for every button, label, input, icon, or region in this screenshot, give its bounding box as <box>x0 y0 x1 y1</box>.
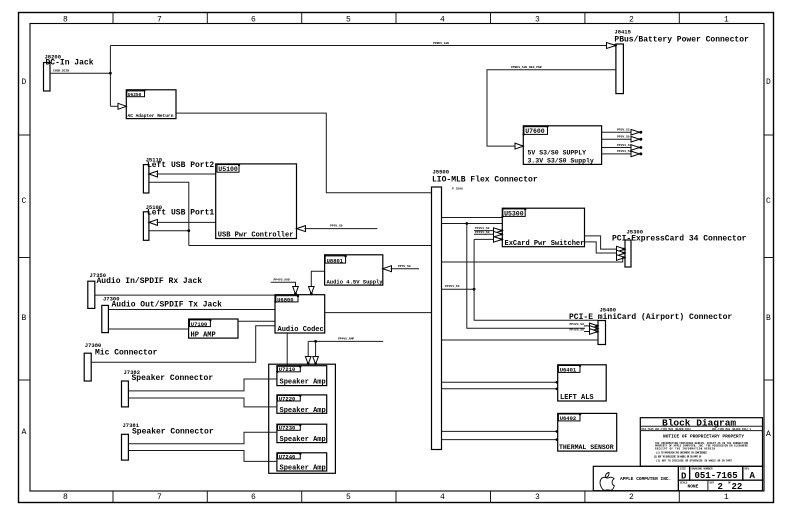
svg-text:051-7165_MLB (BLOCK DIA) 1: 051-7165_MLB (BLOCK DIA) 1 <box>712 428 752 431</box>
svg-text:Speaker Amp: Speaker Amp <box>280 379 326 387</box>
svg-text:Audio 4.5V Supply: Audio 4.5V Supply <box>327 279 384 286</box>
wire vertical DCIN riser <box>109 46 111 107</box>
arrow into J8415 <box>607 43 616 49</box>
wire riser to ExCard arrow3 <box>474 238 493 240</box>
wire U7600 output PP5V_S3 <box>602 131 632 133</box>
svg-text:5V S3/S0 SUPPLY: 5V S3/S0 SUPPLY <box>528 150 587 157</box>
svg-text:P J500: P J500 <box>452 188 463 191</box>
arrow into AC Adapter Return <box>118 103 126 109</box>
connector J8415 PBus/Battery Power Connector <box>614 29 749 94</box>
svg-text:USB Pwr Controller: USB Pwr Controller <box>218 232 294 240</box>
svg-text:(3) NOT TO DISCLOSE OR OTHERWI: (3) NOT TO DISCLOSE OR OTHERWISE IN WHOL… <box>656 460 732 463</box>
wire J5500 PP3V3 to risers <box>442 288 475 290</box>
svg-text:Speaker Amp: Speaker Amp <box>280 436 326 444</box>
svg-text:PP1V5_S0: PP1V5_S0 <box>475 231 490 234</box>
connector J5500 LIO-MLB Flex Connector <box>432 169 538 450</box>
wire J7300 to HP AMP <box>108 328 188 330</box>
junction dot ExCard feed <box>465 222 468 225</box>
svg-text:DC-In Jack: DC-In Jack <box>46 59 94 68</box>
connector J7381 Speaker Connector <box>122 422 214 460</box>
svg-text:B: B <box>22 314 27 323</box>
svg-text:6: 6 <box>251 16 256 25</box>
arrow down into codec pin1 <box>293 287 299 295</box>
svg-text:22: 22 <box>732 482 743 492</box>
svg-text:PP3V3_S3: PP3V3_S3 <box>617 144 632 147</box>
svg-text:PP4V5_AUD: PP4V5_AUD <box>274 278 290 281</box>
wire stub miniCard in1 <box>584 325 590 327</box>
svg-text:051-7165_051-7165_MLB (BLOCK D: 051-7165_051-7165_MLB (BLOCK DIA) <box>642 428 692 431</box>
svg-text:LEFT ALS: LEFT ALS <box>560 394 594 402</box>
svg-text:AC Adapter Return: AC Adapter Return <box>128 113 174 119</box>
svg-text:C: C <box>766 197 771 206</box>
svg-text:Speaker Connector: Speaker Connector <box>132 428 214 437</box>
svg-text:PBus/Battery Power Connector: PBus/Battery Power Connector <box>614 36 749 45</box>
svg-text:RECEIPT OF THE INFORMATION HER: RECEIPT OF THE INFORMATION HEREIN <box>655 447 715 450</box>
svg-text:THERMAL SENSOR: THERMAL SENSOR <box>559 444 614 451</box>
svg-text:7: 7 <box>157 16 162 25</box>
svg-text:C: C <box>22 197 27 206</box>
wire U5100 to J5110 <box>157 173 216 175</box>
block U6401 LEFT ALS <box>558 365 607 402</box>
svg-text:7: 7 <box>157 493 162 502</box>
svg-text:D: D <box>766 78 771 87</box>
wire top power bus PPBUS_G3H <box>110 45 606 47</box>
wire stub ExCard in2 <box>474 233 493 235</box>
svg-text:PCI-ExpressCard 34 Connector: PCI-ExpressCard 34 Connector <box>612 234 747 243</box>
svg-text:PP3V3_S0: PP3V3_S0 <box>475 227 490 230</box>
wire DC-In Jack output <box>50 72 110 74</box>
arrow into U8801 right <box>383 266 392 272</box>
connector J8200 DC-In Jack <box>44 54 94 92</box>
svg-text:Speaker Amp: Speaker Amp <box>280 464 326 472</box>
wire stub miniCard in3 <box>584 331 590 333</box>
wire U5100 to J5100 <box>157 221 216 223</box>
connector J7350 Audio In/SPDIF Rx Jack <box>88 272 203 308</box>
wire J5500 to J5400 bottom <box>442 339 599 341</box>
svg-text:PPBUS_G3H: PPBUS_G3H <box>433 42 449 45</box>
svg-text:NOTICE OF PROPRIETARY PROPERTY: NOTICE OF PROPRIETARY PROPERTY <box>663 433 744 439</box>
svg-text:U7600: U7600 <box>525 128 545 135</box>
svg-text:PP5V_S0: PP5V_S0 <box>617 136 630 139</box>
speaker amp container <box>269 364 336 473</box>
wire J5500 to ExCard top <box>442 217 503 219</box>
wire codec to speaker amp U7210 <box>286 333 288 366</box>
svg-text:SIZE: SIZE <box>680 468 687 471</box>
svg-text:(2) NOT TO DUPLICATE IN WHOLE: (2) NOT TO DUPLICATE IN WHOLE OR IN PART… <box>654 455 702 458</box>
svg-text:D: D <box>681 471 687 481</box>
svg-text:PP1V5_S0: PP1V5_S0 <box>570 329 585 332</box>
arrows into J5300 <box>617 246 626 252</box>
block U8801 Audio 4.5V Supply <box>325 255 384 286</box>
block U7220 Speaker Amp <box>277 395 327 415</box>
connector J5400 PCI-E miniCard (Airport) Connector <box>569 307 732 345</box>
arrows into U5300 left <box>494 228 503 234</box>
svg-text:4: 4 <box>440 493 445 502</box>
svg-text:U8801: U8801 <box>327 257 344 264</box>
wire stub PP5V_S0 to U8801 <box>391 268 420 270</box>
wire U7600 output PP5V_S0 <box>602 138 632 140</box>
block U6250 AC Adapter Return <box>126 89 176 119</box>
svg-text:4: 4 <box>440 16 445 25</box>
wire vertical feed to miniCard arrows <box>467 224 585 329</box>
svg-text:SHT: SHT <box>710 481 715 484</box>
junction dot speaker power <box>314 340 317 343</box>
svg-text:A: A <box>750 471 756 481</box>
wire stub codec top left <box>271 282 296 288</box>
svg-text:PP5V_S3: PP5V_S3 <box>617 129 630 132</box>
connector J5300 PCI-ExpressCard 34 Connector <box>612 229 747 268</box>
arrow down into codec pin2 <box>309 287 315 295</box>
svg-text:051-7165: 051-7165 <box>695 471 738 481</box>
arrow into J5110 <box>149 171 158 177</box>
svg-text:5: 5 <box>346 16 351 25</box>
svg-text:U7240: U7240 <box>279 453 296 460</box>
block U6800 Audio Codec <box>274 295 325 334</box>
block U5300 ExCard Pwr Switcher <box>501 208 584 248</box>
svg-text:U7100: U7100 <box>191 321 208 328</box>
svg-text:Audio Codec: Audio Codec <box>278 326 324 334</box>
svg-text:U5300: U5300 <box>504 210 524 217</box>
svg-text:2: 2 <box>718 482 723 492</box>
wire U7600 output PP3V3_S0 <box>602 153 632 155</box>
wire J5500 to LEFT ALS pin1 <box>442 381 558 383</box>
svg-text:Audio Out/SPDIF Tx Jack: Audio Out/SPDIF Tx Jack <box>112 301 223 310</box>
block U7600 5V/3.3V S3/S0 Supply <box>522 125 601 164</box>
wire stub PP5V_S0 to U5100 <box>305 228 378 230</box>
wire J5500 to ExCard second <box>442 223 503 225</box>
wire J5110 pin2 <box>149 182 189 245</box>
arrow into J5100 <box>149 219 158 225</box>
svg-text:PP4V5_AMP: PP4V5_AMP <box>338 338 354 341</box>
arrow into U5100 right <box>297 226 306 232</box>
title block <box>640 417 762 466</box>
svg-text:2: 2 <box>629 493 634 502</box>
wire HP AMP to codec <box>238 320 275 322</box>
svg-text:PCI-E miniCard (Airport) Conne: PCI-E miniCard (Airport) Connector <box>569 313 732 322</box>
svg-text:PP5V_S0: PP5V_S0 <box>398 265 411 268</box>
arrow into U7600 <box>515 143 523 149</box>
wire J7350 to codec <box>95 294 275 296</box>
wire J5500 to THERMAL pin2 <box>442 439 558 441</box>
svg-text:U7210: U7210 <box>279 366 296 373</box>
svg-text:5: 5 <box>346 493 351 502</box>
block U7230 Speaker Amp <box>277 424 327 444</box>
svg-text:CHGR_DCIN: CHGR_DCIN <box>53 70 69 73</box>
svg-text:PPBUS_S3H_REG_PWR: PPBUS_S3H_REG_PWR <box>511 66 542 69</box>
svg-text:U6800: U6800 <box>277 296 294 303</box>
svg-text:APPLE COMPUTER INC.: APPLE COMPUTER INC. <box>620 476 671 482</box>
wire U5300 out2 to J5300 <box>585 242 618 253</box>
svg-text:2: 2 <box>629 16 634 25</box>
block U7100 HP AMP <box>189 319 238 340</box>
wire J7382 to U7210 <box>128 379 277 391</box>
svg-text:1: 1 <box>724 16 729 25</box>
arrows down into amp container <box>305 357 311 365</box>
block U7210 Speaker Amp <box>276 365 327 386</box>
wire U5300 out1 to J5300 <box>585 236 618 249</box>
connector J5100 Left USB Port1 <box>143 204 214 241</box>
svg-text:ExCard Pwr Switcher: ExCard Pwr Switcher <box>505 240 585 248</box>
wire J5500 to THERMAL pin1 <box>442 430 558 432</box>
wire J7380 to codec <box>91 326 275 363</box>
svg-text:3.3V S3/S0 Supply: 3.3V S3/S0 Supply <box>528 158 594 165</box>
connector J7380 Mic Connector <box>84 342 157 381</box>
wire U7600 output PP3V3_S3 <box>602 147 632 149</box>
block U7240 Speaker Amp <box>277 453 327 473</box>
block U5100 USB Pwr Controller <box>216 164 297 240</box>
svg-text:Mic Connector: Mic Connector <box>95 348 158 357</box>
svg-text:PP5V_S0: PP5V_S0 <box>330 225 343 228</box>
arrows into J5400 <box>590 323 599 329</box>
wire J7381 to U7230 <box>128 432 277 444</box>
svg-text:PP3V3_S0: PP3V3_S0 <box>617 150 632 153</box>
wire J7382 to U7220 <box>128 398 277 407</box>
svg-text:U6402: U6402 <box>560 415 577 422</box>
apple logo <box>600 473 671 491</box>
svg-text:Left USB Port2: Left USB Port2 <box>147 161 214 170</box>
wire USB ports to J5500 <box>189 245 432 247</box>
svg-text:LIO-MLB Flex Connector: LIO-MLB Flex Connector <box>432 176 538 185</box>
svg-text:PP3V3_S0: PP3V3_S0 <box>570 323 585 326</box>
wire J7381 to U7240 <box>128 451 277 462</box>
connector J7382 Speaker Connector <box>122 369 214 407</box>
svg-text:(1) TO MAINTAIN THE DOCUMENT I: (1) TO MAINTAIN THE DOCUMENT IN CONFIDEN… <box>656 451 707 454</box>
svg-text:HP AMP: HP AMP <box>191 332 216 340</box>
junction dot node DCIN <box>109 72 112 75</box>
svg-text:U6250: U6250 <box>128 92 142 98</box>
svg-text:A: A <box>22 428 27 437</box>
junction dot USB pwr net <box>187 229 190 232</box>
wire J8415 second pin to U7600 <box>487 70 616 146</box>
svg-text:8: 8 <box>63 493 68 502</box>
wire AC Adapter Return to J5500 <box>176 113 432 193</box>
junction dot riser <box>473 288 476 291</box>
svg-text:Block Diagram: Block Diagram <box>662 417 736 428</box>
wire J5500 to ExpressCard bottom rail <box>442 258 623 263</box>
svg-text:3: 3 <box>535 16 540 25</box>
wire stub ExCard in1 <box>474 230 493 232</box>
svg-text:U6401: U6401 <box>560 367 577 374</box>
wire riser ExCard arrow3 / miniCard top <box>474 239 598 320</box>
svg-text:U7230: U7230 <box>279 425 296 432</box>
svg-text:B: B <box>766 314 771 323</box>
connector J7300 Audio Out/SPDIF Tx Jack <box>102 295 222 332</box>
svg-text:PP3V3_S0: PP3V3_S0 <box>445 285 460 288</box>
wire J7300 to codec <box>108 309 275 311</box>
svg-text:U5100: U5100 <box>218 166 238 173</box>
title block lower cells <box>593 466 762 492</box>
svg-text:Speaker Connector: Speaker Connector <box>132 374 214 383</box>
svg-text:A: A <box>766 430 771 439</box>
svg-text:1: 1 <box>724 493 729 502</box>
connector J5110 Left USB Port2 <box>143 157 214 194</box>
wire into AC Adapter Return <box>110 105 118 107</box>
wire U8801 to codec top <box>311 271 324 288</box>
svg-text:Left USB Port1: Left USB Port1 <box>147 208 214 217</box>
block U6402 THERMAL SENSOR <box>558 413 617 451</box>
svg-text:Speaker Amp: Speaker Amp <box>280 407 326 415</box>
svg-text:Audio In/SPDIF Rx Jack: Audio In/SPDIF Rx Jack <box>97 277 203 286</box>
wire J5100 pin2 <box>149 230 189 232</box>
svg-text:8: 8 <box>63 16 68 25</box>
svg-text:3: 3 <box>535 493 540 502</box>
svg-text:U7220: U7220 <box>279 395 296 402</box>
wire drops into amp block <box>307 341 309 358</box>
svg-text:NONE: NONE <box>688 484 699 490</box>
wire J5500 to codec line <box>325 312 432 314</box>
svg-text:J8415: J8415 <box>614 29 631 36</box>
svg-text:6: 6 <box>251 493 256 502</box>
svg-text:J5500: J5500 <box>433 169 450 176</box>
wire J5500 to LEFT ALS pin2 <box>442 388 558 390</box>
svg-text:D: D <box>22 78 27 87</box>
wire speaker amp power net <box>308 340 383 342</box>
